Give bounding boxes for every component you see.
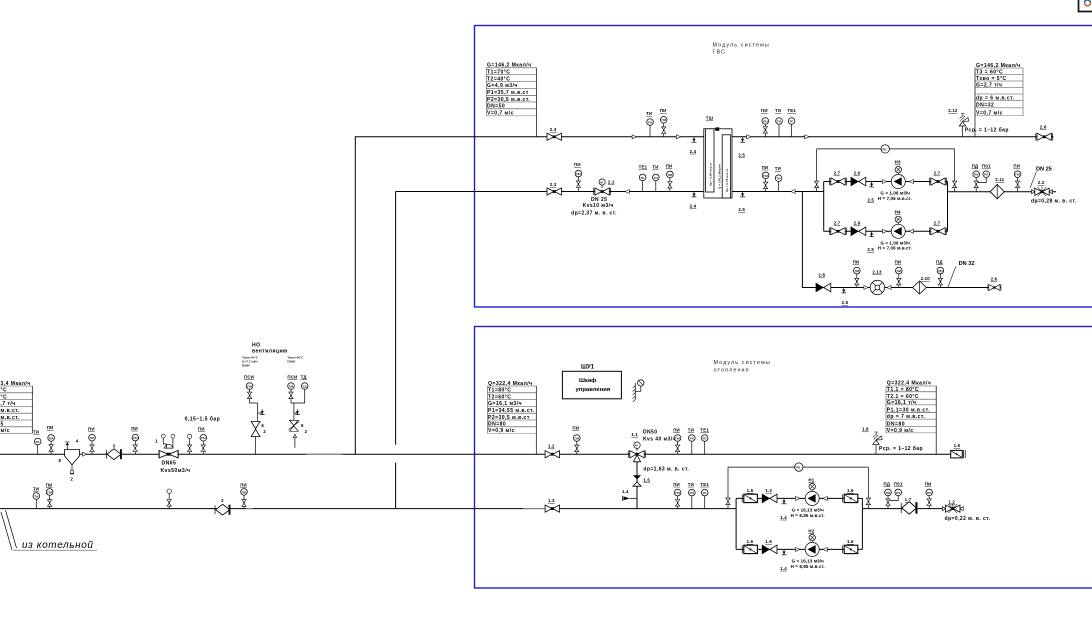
wire heating pump collector right <box>861 498 863 549</box>
svg-text:1.6: 1.6 <box>954 443 961 448</box>
svg-text:°С: °С <box>1 388 8 394</box>
thermometer TI line1 <box>646 111 653 137</box>
gauge PI circulation a <box>853 260 861 288</box>
sensor TE1 heating return <box>700 482 709 509</box>
svg-text:2.5: 2.5 <box>842 300 849 305</box>
union arrow pump H2 right <box>823 547 827 551</box>
svg-text:2.11: 2.11 <box>995 177 1004 182</box>
svg-text:2.13: 2.13 <box>872 269 882 274</box>
gauge PI inlet return <box>46 482 53 508</box>
switch PS1 heating output <box>890 481 903 500</box>
svg-text:Р1=35,7 м.в.ст: Р1=35,7 м.в.ст <box>487 90 529 96</box>
svg-text:2.6: 2.6 <box>1040 124 1047 129</box>
svg-text:ТИ: ТИ <box>775 166 781 171</box>
svg-text:ТЕ: ТЕ <box>703 491 707 495</box>
svg-text:ПИ: ПИ <box>133 436 138 440</box>
svg-text:ПИ: ПИ <box>1013 164 1020 169</box>
valve 2.7 lower left <box>830 220 847 235</box>
svg-text:Н = 8,85 м.в.ст.: Н = 8,85 м.в.ст. <box>791 513 825 518</box>
svg-text:2.5: 2.5 <box>738 152 745 157</box>
svg-text:DN 25: DN 25 <box>1036 166 1052 172</box>
svg-text:ПД: ПД <box>972 164 979 169</box>
svg-text:3: 3 <box>113 443 116 448</box>
svg-text:ПИ: ПИ <box>660 108 667 113</box>
svg-text:1.6: 1.6 <box>847 539 854 544</box>
svg-text:ТЕ1: ТЕ1 <box>700 482 709 487</box>
gauge PD heating output <box>883 481 891 508</box>
drain 2.5 lower branch <box>867 231 874 252</box>
svg-text:ТЕ1: ТЕ1 <box>639 165 648 170</box>
svg-text:ПИ: ПИ <box>673 427 680 432</box>
svg-text:ТШ: ТШ <box>706 116 714 121</box>
thermometer TI top line <box>775 108 782 137</box>
svg-text:Р2=30,5 м.в.ст: Р2=30,5 м.в.ст <box>488 415 530 421</box>
svg-text:G=4,9 м3/ч: G=4,9 м3/ч <box>487 83 518 89</box>
svg-text:DN=80: DN=80 <box>887 422 905 428</box>
flow arrow top a <box>747 135 751 139</box>
wire DHW pump upper branch <box>824 181 948 183</box>
svg-text:1.5: 1.5 <box>765 539 772 544</box>
pump H1 <box>805 477 819 505</box>
svg-text:8: 8 <box>59 458 62 463</box>
svg-text:1.1: 1.1 <box>631 432 638 437</box>
flow arrow line1 a <box>632 135 636 139</box>
svg-text:ПИ: ПИ <box>763 174 768 178</box>
drain 2.4 line2 <box>690 192 697 209</box>
thermometer TI heating return <box>688 482 695 509</box>
tap on heating right dp riser <box>866 498 870 505</box>
svg-text:из котельной: из котельной <box>22 540 94 551</box>
wire supply main grey segment <box>306 453 343 455</box>
valve 2.6 circulation end <box>988 277 1001 291</box>
thermometer TI inlet supply <box>33 430 41 455</box>
valve 1.2 heating output <box>942 500 963 513</box>
svg-text:ТЕ1: ТЕ1 <box>787 108 796 113</box>
svg-text:ПИ: ПИ <box>198 426 205 431</box>
gauge PI heating supply <box>572 425 580 454</box>
label DN 32 with leader <box>948 261 974 287</box>
svg-text:1.2: 1.2 <box>548 444 555 449</box>
table DHW secondary (top right) <box>975 63 1023 137</box>
wire DHW line2 stub to module <box>396 191 704 193</box>
svg-text:ПИ: ПИ <box>90 436 95 440</box>
table inlet supply (clipped left) <box>0 381 33 434</box>
gauge PI line1 <box>660 108 667 137</box>
check valve 2.11 <box>990 177 1004 199</box>
vent branch 2: pressure regulator 6 <box>289 403 308 448</box>
filter 1.6 upper right <box>843 488 858 503</box>
vent branch 1: gauge PSI <box>244 374 258 403</box>
svg-text:2.7: 2.7 <box>934 220 941 225</box>
svg-text:2.4: 2.4 <box>690 204 697 209</box>
svg-text:ПИ: ПИ <box>855 269 860 273</box>
svg-text:1.3: 1.3 <box>765 488 772 493</box>
svg-text:Модуль системы: Модуль системы <box>713 43 770 49</box>
flow arrow bottom line <box>791 190 795 194</box>
svg-text:6: 6 <box>301 423 304 428</box>
svg-text:ПИ: ПИ <box>49 436 54 440</box>
filter 1.6 upper left <box>742 488 757 503</box>
svg-text:2.3: 2.3 <box>550 182 557 187</box>
svg-text:Н = 8,85 м.в.ст.: Н = 8,85 м.в.ст. <box>791 564 825 569</box>
logo frame top right <box>1079 0 1092 12</box>
vent branch 1: drain tap <box>258 409 265 414</box>
gauge PI before valve 1 <box>131 426 138 454</box>
wire heating pump collector left <box>735 498 737 549</box>
union arrow pump H4 left <box>883 229 887 233</box>
svg-text:G=2,7 т/ч: G=2,7 т/ч <box>976 82 1002 88</box>
mud separator 8 <box>59 439 80 482</box>
wire return main <box>0 508 736 510</box>
svg-text:ПИ: ПИ <box>668 173 673 177</box>
switch PS1 output <box>978 164 991 183</box>
svg-text:ШУ1: ШУ1 <box>581 364 595 370</box>
gauge PI before check <box>88 427 95 455</box>
svg-text:ТЕ: ТЕ <box>640 176 644 180</box>
svg-text:DN=50: DN=50 <box>487 104 505 110</box>
pump H4 <box>891 209 905 238</box>
control valve 2.1 with motor <box>571 179 617 217</box>
wire DHW circulation line <box>815 287 1001 289</box>
wire circulation drop <box>802 192 815 288</box>
svg-text:Т1.1 = 80°С: Т1.1 = 80°С <box>887 387 919 393</box>
svg-text:1.8: 1.8 <box>862 427 869 432</box>
svg-text:1.6: 1.6 <box>747 488 754 493</box>
drain 1.4 lower branch <box>780 549 787 570</box>
svg-text:ПИ: ПИ <box>201 436 206 440</box>
svg-text:2.7: 2.7 <box>834 171 841 176</box>
wire DHW secondary bottom line <box>732 191 824 193</box>
svg-text:ПИ: ПИ <box>675 491 680 495</box>
svg-text:м.в.ст.: м.в.ст. <box>1 415 20 421</box>
svg-text:1.4: 1.4 <box>780 566 787 571</box>
svg-text:dр = 7 м.в.ст.: dр = 7 м.в.ст. <box>887 414 926 420</box>
wire dp top line heating <box>728 466 868 468</box>
svg-text:V=0,9 м/с: V=0,9 м/с <box>887 428 914 434</box>
svg-text:ПS1: ПS1 <box>982 164 991 169</box>
svg-text:G = 16,13 м3/ч: G = 16,13 м3/ч <box>792 507 825 512</box>
valve 2.2 output <box>1032 180 1053 196</box>
svg-text:м.в.ст.: м.в.ст. <box>1 408 20 414</box>
svg-text:Н4: Н4 <box>895 209 901 214</box>
svg-text:2.2: 2.2 <box>1038 180 1045 185</box>
svg-text:РS: РS <box>896 491 900 495</box>
svg-text:ТИ: ТИ <box>652 165 658 170</box>
svg-text:ПИ: ПИ <box>574 162 581 167</box>
sensor TE1 top line <box>787 108 796 137</box>
union arrow pump H1 left <box>796 496 800 500</box>
wire DHW pump lower branch <box>824 230 948 232</box>
flow meter 1.6 heating supply <box>951 443 966 458</box>
svg-text:2.6: 2.6 <box>991 277 998 282</box>
svg-text:DN65: DN65 <box>287 360 295 364</box>
svg-text:ТЕ1: ТЕ1 <box>700 427 709 432</box>
pump H2 <box>805 528 819 556</box>
svg-text:DN=32: DN=32 <box>976 103 994 109</box>
svg-text:G=146,2 Мкал/ч: G=146,2 Мкал/ч <box>487 63 532 69</box>
check valve 2.9 upper <box>851 171 866 186</box>
svg-text:ПД: ПД <box>936 260 943 265</box>
svg-text:вентиляцию: вентиляцию <box>252 348 288 354</box>
wire dp right riser heating <box>867 467 869 509</box>
svg-text:dр=0,22 м. в. ст.: dр=0,22 м. в. ст. <box>945 516 991 522</box>
svg-text:V=0,7 м/с: V=0,7 м/с <box>976 111 1003 117</box>
drain 2.5 top line <box>738 137 745 158</box>
svg-text:ТЕ: ТЕ <box>703 436 707 440</box>
svg-text:Т1=70°С: Т1=70°С <box>487 69 510 75</box>
svg-text:1.5: 1.5 <box>643 477 650 482</box>
flow arrow after separator <box>82 452 86 456</box>
drain 1.4 on bypass <box>622 489 637 501</box>
svg-text:ПИ: ПИ <box>576 172 581 176</box>
gauge PI output <box>1013 164 1020 192</box>
thermometer TI inlet return <box>33 487 40 509</box>
safety valve 1.8 heating <box>862 427 923 455</box>
svg-text:dр = 0,78 м.в.ст: dр = 0,78 м.в.ст <box>725 168 729 192</box>
svg-text:Тхво = 5°С: Тхво = 5°С <box>976 76 1007 82</box>
svg-text:dр = 6 м.в.ст.: dр = 6 м.в.ст. <box>976 95 1015 101</box>
gauge PI heating output <box>925 481 933 508</box>
svg-text:dр=0,28 м. в. ст.: dр=0,28 м. в. ст. <box>1031 199 1077 205</box>
svg-text:2.7: 2.7 <box>834 220 841 225</box>
thermometer TI heating supply <box>688 427 695 454</box>
gauge PI after valve 1 <box>198 426 207 454</box>
control valve 1 DN65 with actuator <box>155 434 190 474</box>
svg-text:G=16,1 т/ч: G=16,1 т/ч <box>887 400 917 406</box>
svg-text:Т2=40°С: Т2=40°С <box>487 76 510 82</box>
svg-text:Н1: Н1 <box>808 477 814 482</box>
svg-text:2.8: 2.8 <box>818 273 825 278</box>
svg-text:ПД: ПД <box>883 481 890 486</box>
svg-text:Н = 7,06 м.в.ст.: Н = 7,06 м.в.ст. <box>878 196 912 201</box>
heat exchanger TW <box>704 116 732 198</box>
drain 1.4 upper branch <box>780 498 787 519</box>
svg-text:Kvs50м3/ч: Kvs50м3/ч <box>161 468 191 474</box>
svg-text:ПИ: ПИ <box>925 481 932 486</box>
svg-text:1: 1 <box>155 438 158 443</box>
wire riser from DHW return (break at supply crossing) <box>395 192 397 509</box>
svg-text:1.4: 1.4 <box>622 489 629 494</box>
svg-text:ПИ: ПИ <box>662 118 667 122</box>
svg-text:М: М <box>600 180 603 184</box>
svg-text:ПИ: ПИ <box>131 426 138 431</box>
svg-text:G=146,2 Мкал/ч: G=146,2 Мкал/ч <box>976 63 1021 69</box>
label DN 25 with leader <box>1030 166 1052 188</box>
gauge PD circulation <box>936 260 944 288</box>
valve 2.7 lower right <box>930 220 947 235</box>
svg-text:dр=2,37 м. в. ст.: dр=2,37 м. в. ст. <box>571 210 617 216</box>
svg-text:ПИ: ПИ <box>886 491 891 495</box>
flow arrow line2 <box>625 190 629 194</box>
wire heating pump lower branch <box>736 548 862 550</box>
svg-text:2.3: 2.3 <box>550 127 557 132</box>
gauge PI return right <box>240 482 247 508</box>
svg-text:ПСИ: ПСИ <box>287 374 297 379</box>
svg-text:2.5: 2.5 <box>738 207 745 212</box>
wire riser to DHW supply <box>355 137 704 454</box>
svg-text:°С: °С <box>1 394 8 400</box>
thermometer TI line2 <box>652 165 659 192</box>
svg-text:V=0,7 м/с: V=0,7 м/с <box>487 110 514 116</box>
svg-text:3: 3 <box>221 498 224 503</box>
gauge PI heating return cluster <box>673 482 681 509</box>
check valve 1.3 upper <box>762 488 777 503</box>
sensor TE1 line2 <box>639 165 648 192</box>
gauge PI line2 before valve <box>574 162 582 191</box>
union arrow pump H3 right <box>909 180 913 184</box>
check valve 2.9 lower <box>851 220 866 235</box>
svg-text:ПИ: ПИ <box>572 425 579 430</box>
svg-text:Р1=34,55 м.в.ст.: Р1=34,55 м.в.ст. <box>488 408 535 414</box>
svg-text:1.6: 1.6 <box>847 488 854 493</box>
svg-text:2: 2 <box>305 429 308 434</box>
svg-text:М: М <box>635 444 638 448</box>
svg-text:DN65: DN65 <box>242 364 250 368</box>
wire supply main <box>0 453 951 455</box>
wire heating pump upper branch <box>736 497 862 499</box>
union arrow pump H4 right <box>909 229 913 233</box>
svg-text:1.6: 1.6 <box>747 539 754 544</box>
vent branch 2: gauge PSI <box>287 374 297 403</box>
svg-text:Р2=30,5 м.в.ст.: Р2=30,5 м.в.ст. <box>487 97 530 103</box>
gauge PD dp sensor heating <box>795 463 803 471</box>
drain 2.5 circulation <box>841 288 848 306</box>
svg-text:Q=322,4 Мкал/ч: Q=322,4 Мкал/ч <box>887 381 932 387</box>
svg-text:5: 5 <box>1 422 4 428</box>
svg-text:DN65: DN65 <box>162 461 177 467</box>
gauge PI inlet supply <box>47 425 55 454</box>
union arrow pump H3 left <box>883 180 887 184</box>
svg-text:2.5: 2.5 <box>867 247 874 252</box>
check valve 1.5 on bypass <box>633 475 651 486</box>
svg-text:Н3: Н3 <box>895 160 901 165</box>
flow arrow line1 b <box>676 135 680 139</box>
filter 1.6 lower left <box>742 539 757 554</box>
gauge PI circulation b <box>895 260 903 288</box>
flow arrow top b <box>805 135 809 139</box>
control cabinet box <box>562 371 621 399</box>
svg-text:dр=1,63 м. в. ст.: dр=1,63 м. в. ст. <box>643 466 689 472</box>
svg-text:DN 25: DN 25 <box>591 197 607 203</box>
svg-text:Модуль системы: Модуль системы <box>714 360 771 366</box>
valve 2.7 upper right <box>930 171 947 185</box>
vent after valve 1 <box>187 434 191 454</box>
svg-text:Рср. = 1–12 бар: Рср. = 1–12 бар <box>879 445 923 452</box>
svg-text:ПИ: ПИ <box>927 491 932 495</box>
union arrow pump H2 left <box>796 547 800 551</box>
svg-text:4: 4 <box>76 439 79 444</box>
tap on right dp riser <box>952 181 956 188</box>
svg-text:DN=80: DN=80 <box>488 422 506 428</box>
wire 3way bypass drop <box>636 462 638 509</box>
circulation pump 2.13 <box>870 269 884 294</box>
gauge PI line2 after valve <box>666 163 674 191</box>
svg-text:ПИ: ПИ <box>666 163 673 168</box>
wire DHW secondary top line <box>732 136 1054 138</box>
svg-text:ПИ: ПИ <box>853 260 860 265</box>
valve 2.7 upper left <box>830 171 847 185</box>
svg-text:,7 т/ч: ,7 т/ч <box>1 401 16 407</box>
svg-text:ПИ: ПИ <box>1015 173 1020 177</box>
svg-text:ПИ: ПИ <box>289 384 294 388</box>
svg-text:2.4: 2.4 <box>690 149 697 154</box>
union arrow pump H1 right <box>823 496 827 500</box>
wire DHW output line <box>948 191 1057 193</box>
svg-text:2: 2 <box>263 429 266 434</box>
svg-text:2.1: 2.1 <box>608 179 615 184</box>
svg-text:РD: РD <box>796 466 801 470</box>
svg-text:Н2: Н2 <box>808 528 814 533</box>
svg-text:ТИ: ТИ <box>646 111 652 116</box>
svg-text:2: 2 <box>70 476 73 481</box>
tap on left dp riser <box>814 181 818 188</box>
svg-text:м/с: м/с <box>1 428 10 434</box>
check valve 3 return <box>215 498 230 515</box>
svg-text:2.12: 2.12 <box>948 108 958 113</box>
wire return main grey segments <box>247 508 253 510</box>
check valve 3 supply <box>106 443 121 459</box>
outdoor temp sensor TE on wall <box>633 380 644 402</box>
svg-text:3,4 Мкал/ч: 3,4 Мкал/ч <box>1 381 31 387</box>
svg-text:ПИ: ПИ <box>938 269 943 273</box>
svg-text:ГВС: ГВС <box>713 50 727 56</box>
svg-text:Н = 7,06 м.в.ст.: Н = 7,06 м.в.ст. <box>878 246 912 251</box>
gauge PD output <box>972 164 980 192</box>
tap on heating left dp riser <box>726 498 730 505</box>
valve 2.3 DHW line2 <box>547 182 561 195</box>
vent branch 1: safety valve 6 <box>251 403 266 454</box>
svg-text:ПИ: ПИ <box>763 119 768 123</box>
svg-text:Q=322,4 Мкал/ч: Q=322,4 Мкал/ч <box>488 381 533 387</box>
svg-text:Р1.1=30 м.в.ст.: Р1.1=30 м.в.ст. <box>887 407 930 413</box>
vent on return <box>167 489 171 509</box>
svg-text:Шкаф: Шкаф <box>579 377 596 384</box>
svg-text:управления: управления <box>576 387 611 393</box>
svg-text:ТИ: ТИ <box>33 430 39 435</box>
gauge PD dp sensor DHW <box>881 145 889 153</box>
svg-text:1.2: 1.2 <box>948 500 955 505</box>
wire dp right riser DHW <box>954 149 956 192</box>
table heating primary (left) <box>488 381 537 454</box>
svg-text:Т3 = 60°С: Т3 = 60°С <box>976 69 1003 75</box>
drain 2.5 upper branch <box>867 182 874 203</box>
wire DHW pump collector left <box>823 182 825 232</box>
sensor TE1 heating supply <box>700 427 709 454</box>
wire DHW pump collector right <box>947 182 949 232</box>
svg-text:1.3: 1.3 <box>548 498 555 503</box>
table heating secondary (right) <box>886 381 936 455</box>
svg-text:РD: РD <box>882 147 887 151</box>
svg-text:Т1=80°С: Т1=80°С <box>488 388 511 394</box>
filter 2.10 circulation <box>913 276 931 294</box>
svg-text:G = 16,13 м3/ч: G = 16,13 м3/ч <box>792 558 825 563</box>
svg-text:Т2=60°С: Т2=60°С <box>488 394 511 400</box>
svg-text:ПИ: ПИ <box>242 490 247 494</box>
svg-text:ПСИ: ПСИ <box>244 374 254 379</box>
valve 2.8 circulation <box>816 273 831 292</box>
svg-text:ТИ: ТИ <box>688 482 694 487</box>
svg-text:ПИ: ПИ <box>675 436 680 440</box>
svg-text:1.7: 1.7 <box>905 497 912 502</box>
drain 2.5 bottom line <box>738 192 745 213</box>
safety valve 2.12 <box>948 108 1009 137</box>
valve 1.3 heating return <box>545 498 559 512</box>
wire dp sense left riser heating <box>727 467 729 509</box>
svg-text:ПИ: ПИ <box>762 165 769 170</box>
svg-text:ПИ: ПИ <box>47 425 54 430</box>
svg-text:1.4: 1.4 <box>780 515 787 520</box>
svg-text:V=0,9 м/с: V=0,9 м/с <box>488 428 515 434</box>
